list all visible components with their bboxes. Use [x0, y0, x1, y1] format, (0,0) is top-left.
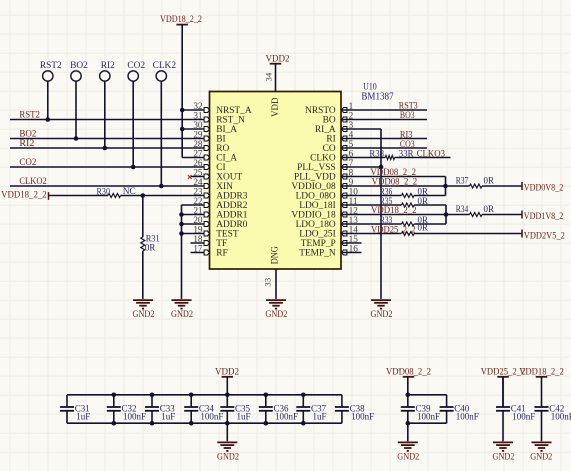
- svg-text:VDD2V5_2: VDD2V5_2: [524, 231, 565, 241]
- svg-text:TF: TF: [216, 239, 227, 249]
- svg-text:27: 27: [193, 149, 203, 159]
- svg-text:0R: 0R: [145, 243, 156, 253]
- svg-text:0R: 0R: [484, 176, 495, 186]
- svg-text:ADDR2: ADDR2: [216, 201, 248, 211]
- svg-text:34: 34: [263, 72, 273, 81]
- svg-text:17: 17: [193, 244, 203, 254]
- svg-text:100nF: 100nF: [351, 412, 374, 422]
- svg-text:18: 18: [193, 234, 203, 244]
- svg-text:28: 28: [193, 139, 203, 149]
- svg-text:23: 23: [193, 187, 203, 197]
- svg-text:RST_N: RST_N: [216, 115, 245, 125]
- svg-text:ADDR1: ADDR1: [216, 210, 248, 220]
- svg-text:RI: RI: [326, 134, 335, 144]
- svg-text:TEMP_N: TEMP_N: [299, 248, 336, 258]
- svg-text:33: 33: [262, 277, 272, 286]
- svg-text:GND2: GND2: [133, 310, 155, 320]
- svg-text:XOUT: XOUT: [216, 172, 242, 182]
- svg-text:R36: R36: [380, 186, 393, 196]
- svg-text:GND2: GND2: [397, 453, 419, 463]
- svg-text:CO2: CO2: [127, 61, 145, 71]
- svg-text:CLKO: CLKO: [310, 153, 336, 163]
- svg-text:RI_A: RI_A: [315, 125, 336, 135]
- svg-text:24: 24: [193, 177, 203, 187]
- svg-text:CO2: CO2: [19, 158, 36, 168]
- svg-text:VDD18_2_2: VDD18_2_2: [1, 191, 47, 201]
- svg-text:19: 19: [193, 225, 203, 235]
- svg-text:CLK2: CLK2: [153, 61, 177, 71]
- svg-text:NC: NC: [123, 186, 136, 196]
- svg-text:33R: 33R: [399, 148, 414, 158]
- svg-text:26: 26: [193, 158, 203, 168]
- svg-text:31: 31: [193, 111, 203, 121]
- svg-text:1uF: 1uF: [313, 412, 327, 422]
- svg-text:VDD08_2_2: VDD08_2_2: [372, 178, 418, 188]
- svg-text:VDD1V8_2: VDD1V8_2: [524, 212, 564, 222]
- svg-text:20: 20: [193, 215, 203, 225]
- svg-text:VDD0V8_2: VDD0V8_2: [524, 183, 564, 193]
- svg-text:100nF: 100nF: [200, 412, 223, 422]
- svg-text:100nF: 100nF: [275, 412, 298, 422]
- svg-text:BO2: BO2: [19, 130, 36, 140]
- svg-text:RST2: RST2: [40, 61, 62, 71]
- svg-text:GND2: GND2: [530, 453, 552, 463]
- svg-text:0R: 0R: [418, 223, 429, 233]
- svg-text:R35: R35: [380, 196, 393, 206]
- svg-text:22: 22: [193, 196, 203, 206]
- svg-text:0R: 0R: [418, 186, 429, 196]
- svg-text:VDD18_2_2: VDD18_2_2: [160, 15, 202, 25]
- svg-text:100nF: 100nF: [551, 412, 571, 422]
- svg-text:RF: RF: [216, 248, 227, 258]
- svg-text:R33: R33: [380, 215, 393, 225]
- svg-text:LDO_25I: LDO_25I: [299, 229, 335, 239]
- svg-text:VDD18_2_2: VDD18_2_2: [371, 206, 417, 216]
- svg-text:VDD08_2_2: VDD08_2_2: [370, 168, 416, 178]
- svg-text:GND2: GND2: [217, 453, 239, 463]
- svg-text:VDD: VDD: [270, 97, 280, 117]
- svg-text:RO: RO: [216, 144, 229, 154]
- svg-text:GND2: GND2: [265, 310, 287, 320]
- svg-text:1uF: 1uF: [237, 412, 251, 422]
- svg-text:TEST: TEST: [216, 229, 239, 239]
- svg-text:VDD25_2_2: VDD25_2_2: [371, 225, 416, 235]
- svg-text:RI2: RI2: [101, 61, 115, 71]
- svg-text:CO: CO: [323, 144, 336, 154]
- svg-text:R34: R34: [456, 204, 469, 214]
- svg-text:BI_A: BI_A: [216, 125, 237, 135]
- svg-text:LDO_18I: LDO_18I: [299, 201, 335, 211]
- svg-text:100nF: 100nF: [123, 412, 146, 422]
- svg-text:1uF: 1uF: [76, 412, 90, 422]
- svg-text:LDO_18O: LDO_18O: [296, 220, 336, 230]
- svg-text:100nF: 100nF: [456, 412, 479, 422]
- svg-text:XIN: XIN: [216, 182, 233, 192]
- svg-text:TEMP_P: TEMP_P: [301, 239, 336, 249]
- svg-text:ADDR3: ADDR3: [216, 191, 248, 201]
- svg-text:GND2: GND2: [171, 310, 193, 320]
- svg-text:BI: BI: [216, 134, 225, 144]
- svg-text:100nF: 100nF: [512, 412, 535, 422]
- svg-text:GND2: GND2: [493, 453, 515, 463]
- svg-text:PLL_VDD: PLL_VDD: [294, 172, 336, 182]
- svg-text:RST3: RST3: [399, 102, 418, 112]
- svg-text:CI_A: CI_A: [216, 153, 237, 163]
- svg-text:LDO_08O: LDO_08O: [296, 191, 336, 201]
- svg-text:ADDR0: ADDR0: [216, 220, 248, 230]
- svg-text:GND2: GND2: [371, 310, 393, 320]
- svg-text:BO3: BO3: [400, 111, 415, 121]
- svg-text:1uF: 1uF: [161, 412, 175, 422]
- svg-text:PLL_VSS: PLL_VSS: [297, 163, 336, 173]
- svg-text:NRSTO: NRSTO: [305, 106, 336, 116]
- svg-text:CLKO3: CLKO3: [417, 149, 446, 159]
- svg-text:RI3: RI3: [400, 131, 413, 141]
- svg-text:R38: R38: [369, 148, 384, 158]
- svg-text:25: 25: [193, 168, 203, 178]
- svg-text:RST2: RST2: [19, 111, 40, 121]
- svg-text:0R: 0R: [418, 196, 429, 206]
- svg-text:BM1387: BM1387: [361, 92, 393, 103]
- svg-text:RI2: RI2: [19, 139, 34, 149]
- svg-text:100nF: 100nF: [417, 412, 440, 422]
- svg-text:R37: R37: [456, 176, 469, 186]
- svg-text:29: 29: [193, 130, 203, 140]
- svg-text:21: 21: [193, 206, 203, 216]
- svg-text:NRST_A: NRST_A: [216, 106, 252, 116]
- svg-text:30: 30: [193, 120, 203, 130]
- svg-text:DNG: DNG: [270, 246, 280, 264]
- svg-text:CI: CI: [216, 163, 225, 173]
- svg-text:CLKO2: CLKO2: [19, 177, 47, 187]
- svg-text:BO: BO: [323, 115, 336, 125]
- svg-text:R30: R30: [97, 187, 111, 197]
- svg-text:0R: 0R: [484, 204, 495, 214]
- svg-text:BO2: BO2: [70, 61, 88, 71]
- svg-text:VDDIO_08: VDDIO_08: [291, 182, 336, 192]
- svg-text:32: 32: [193, 101, 203, 111]
- svg-text:VDDIO_18: VDDIO_18: [291, 210, 336, 220]
